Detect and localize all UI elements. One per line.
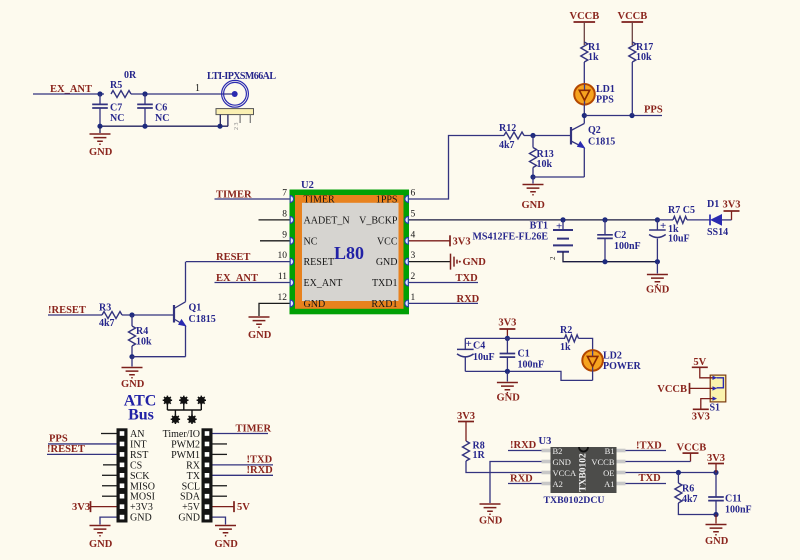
pin VCCB U3 — [591, 457, 625, 467]
svg-text:TXD: TXD — [639, 473, 662, 484]
pin CS — [103, 460, 142, 471]
node junction C5 bottom — [655, 259, 660, 264]
svg-text:RX: RX — [186, 460, 201, 471]
ground GND below C1 — [497, 371, 521, 403]
node junction 3V3 rail — [505, 336, 510, 341]
net label EX_ANT — [50, 84, 92, 95]
node junction C11 bottom — [713, 512, 718, 517]
pin 9 NC — [282, 230, 317, 247]
pin INT / net PPS — [48, 434, 147, 451]
svg-text:1: 1 — [195, 83, 200, 94]
net label PPS — [644, 105, 663, 116]
svg-text:V_BCKP: V_BCKP — [359, 215, 398, 226]
node junction OE/R6 — [676, 470, 681, 475]
svg-text:R3: R3 — [99, 303, 111, 314]
svg-text:LD2: LD2 — [603, 351, 622, 362]
svg-text:C1: C1 — [518, 349, 530, 360]
svg-text:PWM2: PWM2 — [171, 439, 200, 450]
svg-text:9: 9 — [282, 230, 287, 240]
svg-text:4k7: 4k7 — [682, 494, 698, 505]
resistor R12 — [499, 123, 571, 151]
power 3V3 above C1 — [498, 318, 516, 339]
svg-text:SCK: SCK — [130, 471, 150, 482]
node junction at C6 top — [142, 91, 147, 96]
pin RST / net !RESET — [47, 444, 148, 461]
svg-text:LD1: LD1 — [596, 84, 615, 95]
node junction rail antenna — [217, 124, 222, 129]
svg-text:3V3: 3V3 — [72, 502, 90, 513]
svg-text:1PPS: 1PPS — [376, 195, 398, 206]
svg-text:C1815: C1815 — [189, 314, 216, 325]
pin 4 VCC — [377, 230, 416, 247]
pin GND left header — [100, 513, 152, 525]
svg-text:RXD: RXD — [510, 473, 533, 484]
svg-text:C11: C11 — [725, 494, 742, 505]
svg-text:CS: CS — [130, 460, 142, 471]
wire pin 12 to ground — [259, 303, 290, 316]
pin 6 1PPS — [376, 189, 416, 206]
svg-text:4k7: 4k7 — [99, 318, 115, 329]
battery BT1 MS412FE-FL26E — [472, 220, 657, 262]
resistor R3 — [99, 303, 174, 330]
svg-text:TXB0102DCU: TXB0102DCU — [544, 495, 605, 506]
pin VCCA — [542, 468, 577, 478]
svg-text:1: 1 — [411, 293, 416, 303]
svg-text:+5V: +5V — [182, 502, 201, 513]
svg-text:GND: GND — [553, 457, 571, 467]
svg-text:10uF: 10uF — [668, 234, 690, 245]
transistor Q1 C1815 — [174, 262, 216, 357]
wire bottom rail C4/C1 — [465, 371, 592, 380]
svg-text:OE: OE — [603, 468, 614, 478]
svg-text:GND: GND — [497, 393, 521, 404]
pin GND U3 — [542, 457, 571, 467]
net label TXD at pin2 — [409, 273, 478, 284]
svg-text:GND: GND — [304, 299, 326, 310]
pin +5V / power 5V — [182, 501, 250, 513]
svg-text:10: 10 — [278, 251, 288, 261]
svg-text:1R: 1R — [473, 450, 486, 461]
svg-text:A1: A1 — [604, 479, 614, 489]
capacitor C1 — [500, 338, 545, 371]
svg-text:AADET_N: AADET_N — [304, 215, 350, 226]
svg-text:10k: 10k — [636, 52, 652, 63]
pin TX / net !RXD — [187, 465, 274, 482]
svg-text:GND: GND — [376, 257, 398, 268]
svg-text:GND: GND — [248, 330, 272, 341]
svg-text:6: 6 — [411, 189, 416, 199]
svg-text:!TXD: !TXD — [636, 440, 662, 451]
wire PPS net — [584, 115, 662, 117]
capacitor C7 — [92, 94, 124, 126]
svg-text:8: 8 — [282, 209, 287, 219]
node junction R17/PPS — [629, 113, 634, 118]
pin Timer/IO / net TIMER — [163, 423, 272, 440]
pin S1-3 — [713, 396, 718, 400]
svg-text:EX_ANT: EX_ANT — [304, 278, 343, 289]
wire EX_ANT horizontal — [33, 93, 104, 95]
svg-text:MOSI: MOSI — [130, 492, 155, 503]
node junction C5 top — [655, 217, 660, 222]
svg-text:VCCA: VCCA — [553, 468, 577, 478]
ground GND below U3 — [479, 504, 503, 527]
svg-text:GND: GND — [89, 539, 113, 550]
svg-text:PPS: PPS — [596, 95, 614, 106]
svg-text:1k: 1k — [560, 342, 571, 353]
pin 3 GND — [376, 251, 416, 268]
pin A1 — [604, 479, 625, 489]
svg-text:10uF: 10uF — [473, 352, 495, 363]
pin RX / net !TXD — [186, 455, 273, 472]
capacitor C11 — [708, 473, 751, 516]
svg-text:5: 5 — [411, 209, 416, 219]
ground GND below left header — [89, 526, 113, 551]
wire LD1 to collector node — [583, 105, 585, 124]
wire U3 GND pin to ground — [490, 462, 542, 504]
node junction C1 bottom — [505, 369, 510, 374]
svg-text:VCC: VCC — [377, 236, 398, 247]
svg-text:R7 C5: R7 C5 — [668, 205, 695, 216]
pin 5 V_BCKP — [359, 209, 415, 226]
capacitor C2 — [597, 220, 640, 262]
capacitor C5 polarized — [649, 220, 690, 262]
capacitor C4 polarized — [457, 338, 495, 371]
ground GND below C11 — [705, 515, 729, 548]
wire pin 8 stub — [259, 219, 290, 221]
node junction C2 top — [602, 217, 607, 222]
power 3V3 at S1 — [692, 399, 713, 423]
svg-text:L80: L80 — [334, 243, 364, 263]
diode D1 SS14 — [707, 199, 732, 238]
svg-text:B2: B2 — [553, 446, 563, 456]
ground power GND at pin3 — [409, 254, 486, 270]
op-amp U2 L80 module body — [290, 180, 410, 314]
node junction at C7 top — [97, 91, 102, 96]
svg-text:10k: 10k — [136, 337, 152, 348]
node junction C2 bottom — [602, 259, 607, 264]
svg-text:RESET: RESET — [304, 257, 335, 268]
wire OE net — [626, 472, 717, 474]
wire pin6 to R12 — [409, 136, 504, 200]
power 3V3 at pin4 — [409, 235, 471, 247]
svg-text:Bus: Bus — [128, 407, 154, 424]
svg-text:Q2: Q2 — [588, 125, 601, 136]
svg-text:B1: B1 — [605, 446, 615, 456]
connector left header bar — [117, 428, 128, 522]
pin MISO — [102, 481, 155, 492]
svg-text:BT1: BT1 — [530, 221, 548, 232]
svg-text:12: 12 — [278, 293, 288, 303]
svg-text:!RXD: !RXD — [247, 465, 274, 476]
transistor Q2 C1815 — [571, 124, 615, 178]
pin SDA — [180, 492, 227, 503]
svg-text:R5: R5 — [110, 80, 122, 91]
power VCCB at U3 — [626, 442, 707, 461]
svg-text:RXD1: RXD1 — [371, 299, 397, 310]
svg-text:RST: RST — [130, 450, 148, 461]
svg-text:C2: C2 — [614, 230, 626, 241]
svg-text:+: + — [556, 221, 562, 233]
svg-text:GND: GND — [705, 536, 729, 547]
svg-text:!RESET: !RESET — [47, 444, 85, 455]
net label EX_ANT at pin11 — [215, 273, 290, 284]
resistor R4 — [129, 315, 153, 357]
pin 1 RXD1 — [371, 293, 415, 310]
resistor R17 — [629, 42, 653, 116]
svg-text:NC: NC — [304, 236, 318, 247]
svg-text:VCCB: VCCB — [618, 11, 648, 22]
power VCCB 2 — [618, 11, 648, 45]
net label RXD at pin1 — [409, 294, 480, 305]
svg-text:TXD1: TXD1 — [372, 278, 398, 289]
pin AN — [101, 429, 144, 440]
connector right header bar — [202, 428, 213, 522]
svg-text:3V3: 3V3 — [453, 236, 471, 247]
svg-text:A2: A2 — [553, 479, 563, 489]
svg-text:+3V3: +3V3 — [130, 502, 153, 513]
svg-text:LTI-IPXSM66AL: LTI-IPXSM66AL — [207, 71, 276, 82]
svg-text:100nF: 100nF — [518, 360, 545, 371]
svg-text:R6: R6 — [682, 484, 694, 495]
svg-text:4k7: 4k7 — [499, 140, 515, 151]
node junction BT1 — [560, 217, 565, 222]
wire 3V3 top rail — [465, 337, 565, 339]
pin 8 AADET_N — [282, 209, 349, 226]
resistor R1 — [581, 42, 600, 84]
ground GND below right header — [215, 526, 239, 551]
svg-text:TIMER: TIMER — [304, 195, 335, 206]
LED LD2 POWER — [582, 350, 641, 380]
pin 10 RESET — [278, 251, 335, 268]
svg-text:!RXD: !RXD — [510, 440, 537, 451]
ground GND below C7 — [89, 126, 113, 158]
pin OE — [603, 468, 625, 478]
net label !RXD at B2 — [508, 440, 542, 451]
pin MOSI — [102, 492, 155, 503]
svg-text:NC: NC — [110, 113, 124, 124]
pin PWM1 — [171, 450, 227, 461]
pin SCL — [182, 481, 227, 492]
svg-text:3V3: 3V3 — [692, 412, 710, 423]
node junction R3/R4 — [129, 312, 134, 317]
net label RXD at A2 — [508, 473, 542, 484]
power VCCB at S1 — [657, 383, 712, 395]
pin 7 TIMER — [282, 189, 335, 206]
svg-text:VCCB: VCCB — [591, 457, 614, 467]
power 5V at S1 — [692, 357, 713, 378]
ground GND below R4 — [121, 357, 145, 390]
svg-text:AN: AN — [130, 429, 144, 440]
svg-text:PWM1: PWM1 — [171, 450, 200, 461]
svg-text:GND: GND — [130, 513, 152, 524]
ground GND below pin12 — [248, 317, 272, 341]
IC U3 TXB0102DCU body — [539, 436, 617, 506]
wire V_BCKP rail — [409, 219, 657, 221]
pin 12 GND — [278, 293, 326, 310]
svg-text:2: 2 — [549, 256, 557, 260]
resistor R6 — [675, 473, 716, 515]
svg-text:1k: 1k — [588, 52, 599, 63]
svg-text:+: + — [466, 338, 472, 350]
svg-text:NC: NC — [155, 113, 169, 124]
resistor R5 — [110, 70, 232, 98]
net label !RESET left — [48, 305, 102, 316]
pin PWM2 — [171, 439, 227, 450]
pin B1 — [605, 446, 626, 456]
wire pin 9 stub — [260, 240, 290, 242]
power 3V3 above R8 — [457, 411, 475, 441]
node junction R12/R13 — [530, 133, 535, 138]
svg-text:TX: TX — [187, 471, 201, 482]
power 3V3 at OE — [707, 453, 725, 473]
node junction rail C7 — [97, 124, 102, 129]
svg-text:3V3: 3V3 — [722, 200, 740, 211]
net label RESET at pin10 — [186, 252, 290, 263]
svg-text:100nF: 100nF — [725, 505, 752, 516]
svg-text:4: 4 — [411, 230, 416, 240]
svg-text:VCCB: VCCB — [657, 384, 687, 395]
svg-text:MISO: MISO — [130, 481, 155, 492]
wire Q2 emitter bottom — [533, 176, 584, 178]
pin SCK — [102, 471, 150, 482]
node junction rail C6 — [142, 124, 147, 129]
power 3V3 at D1 — [722, 200, 740, 220]
power VCCB 1 — [570, 11, 600, 45]
svg-text:TIMER: TIMER — [236, 423, 272, 434]
svg-text:+: + — [660, 220, 666, 232]
svg-text:10k: 10k — [537, 159, 553, 170]
pin S1-1 — [713, 376, 718, 380]
node junction R4 bottom — [129, 354, 134, 359]
svg-text:SS14: SS14 — [707, 227, 728, 238]
svg-text:GND: GND — [215, 539, 239, 550]
wire S1 jumper bracket — [717, 378, 724, 388]
net label !TXD at B1 — [626, 440, 667, 451]
net label TIMER at pin7 — [215, 189, 290, 200]
svg-text:GND: GND — [178, 513, 200, 524]
svg-text:SDA: SDA — [180, 492, 201, 503]
svg-text:2 3: 2 3 — [234, 123, 240, 131]
svg-text:GND: GND — [463, 257, 487, 268]
svg-text:SCL: SCL — [182, 481, 200, 492]
svg-text:U3: U3 — [539, 436, 552, 447]
svg-text:PPS: PPS — [49, 434, 68, 445]
svg-text:2: 2 — [411, 272, 416, 282]
svg-text:7: 7 — [282, 189, 287, 199]
svg-text:C1815: C1815 — [588, 137, 615, 148]
svg-text:U2: U2 — [301, 180, 314, 191]
svg-text:5V: 5V — [693, 357, 706, 368]
svg-text:C6: C6 — [155, 103, 167, 114]
svg-text:Q1: Q1 — [189, 303, 202, 314]
svg-text:R4: R4 — [136, 326, 148, 337]
LED LD1 PPS — [574, 84, 615, 106]
svg-text:3V3: 3V3 — [498, 318, 516, 329]
svg-text:INT: INT — [130, 439, 147, 450]
svg-text:100nF: 100nF — [614, 241, 641, 252]
svg-text:3V3: 3V3 — [457, 411, 475, 422]
svg-text:S1: S1 — [710, 403, 721, 414]
svg-text:3V3: 3V3 — [707, 453, 725, 464]
antenna connector LTI-IPXSM66AL — [207, 71, 276, 130]
svg-text:D1: D1 — [707, 199, 719, 210]
capacitor C6 — [137, 94, 169, 126]
svg-text:GND: GND — [522, 200, 546, 211]
pin 2 TXD1 — [372, 272, 416, 289]
svg-text:GND: GND — [479, 516, 503, 527]
node junction OE/3V3 — [713, 470, 718, 475]
svg-text:11: 11 — [278, 272, 287, 282]
svg-text:5V: 5V — [237, 502, 250, 513]
jumper link icon — [163, 396, 206, 424]
label ATC Bus — [124, 393, 157, 424]
ground GND below C5 — [646, 262, 670, 296]
svg-text:GND: GND — [646, 285, 670, 296]
resistor R13 — [530, 136, 554, 178]
svg-text:3: 3 — [411, 251, 416, 261]
pin GND right header — [178, 513, 225, 525]
resistor R8 — [463, 441, 543, 473]
net label TXD at A1 — [626, 473, 667, 484]
connector S1 body — [710, 375, 726, 413]
ground GND below R13 — [522, 177, 546, 211]
wire emitter bottom — [132, 356, 186, 358]
svg-text:VCCB: VCCB — [677, 442, 707, 453]
pin B2 — [542, 446, 563, 456]
resistor R7 — [657, 205, 710, 223]
svg-text:C7: C7 — [110, 103, 122, 114]
svg-text:VCCB: VCCB — [570, 11, 600, 22]
svg-text:R12: R12 — [499, 123, 516, 134]
svg-text:GND: GND — [89, 147, 113, 158]
pin 11 EX_ANT — [278, 272, 343, 289]
pin 1 label antenna — [195, 83, 200, 94]
pin A2 — [542, 479, 563, 489]
svg-text:Timer/IO: Timer/IO — [163, 429, 200, 440]
svg-text:PPS: PPS — [644, 105, 663, 116]
svg-text:C4: C4 — [473, 341, 485, 352]
resistor R2 — [560, 325, 593, 353]
pin +3V3 / power 3V3 — [72, 501, 153, 513]
node junction R13 bottom — [530, 174, 535, 179]
svg-text:TXB0102: TXB0102 — [579, 453, 589, 492]
svg-text:GND: GND — [121, 379, 145, 390]
svg-text:MS412FE-FL26E: MS412FE-FL26E — [472, 232, 548, 243]
svg-text:POWER: POWER — [603, 361, 642, 372]
node junction PPS — [582, 113, 587, 118]
pin S1-2 — [713, 386, 718, 390]
svg-text:R2: R2 — [560, 325, 572, 336]
wire antenna ground rail — [100, 125, 228, 127]
svg-text:!TXD: !TXD — [247, 455, 273, 466]
svg-text:0R: 0R — [124, 70, 137, 81]
